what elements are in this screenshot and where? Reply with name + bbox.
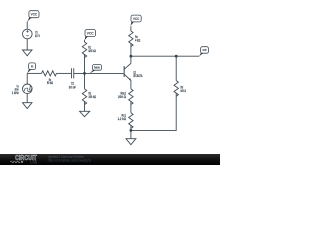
svg-text:VCC: VCC xyxy=(31,13,38,17)
svg-text:4 kΩ: 4 kΩ xyxy=(135,39,140,43)
svg-text:VCC: VCC xyxy=(133,17,139,21)
svg-text:out: out xyxy=(203,48,207,52)
svg-text:30 nF: 30 nF xyxy=(69,86,77,90)
svg-text:base: base xyxy=(94,66,100,70)
svg-text:LAB: LAB xyxy=(30,159,37,164)
svg-text:VCC: VCC xyxy=(87,31,94,35)
svg-text:420 kΩ: 420 kΩ xyxy=(88,49,96,53)
svg-text:1.2 kΩ: 1.2 kΩ xyxy=(118,117,126,121)
svg-text:http://circuitlab.com/cwa6j26: http://circuitlab.com/cwa6j26 xyxy=(48,158,91,162)
svg-text:800 Ω: 800 Ω xyxy=(181,89,187,93)
svg-text:200 kΩ: 200 kΩ xyxy=(89,95,97,99)
svg-text:1 kHz: 1 kHz xyxy=(12,91,19,95)
svg-text:50 kΩ: 50 kΩ xyxy=(47,81,53,85)
svg-text:10 V: 10 V xyxy=(35,34,41,38)
svg-text:200 Ω: 200 Ω xyxy=(118,95,126,99)
svg-text:BC547A: BC547A xyxy=(133,74,142,78)
